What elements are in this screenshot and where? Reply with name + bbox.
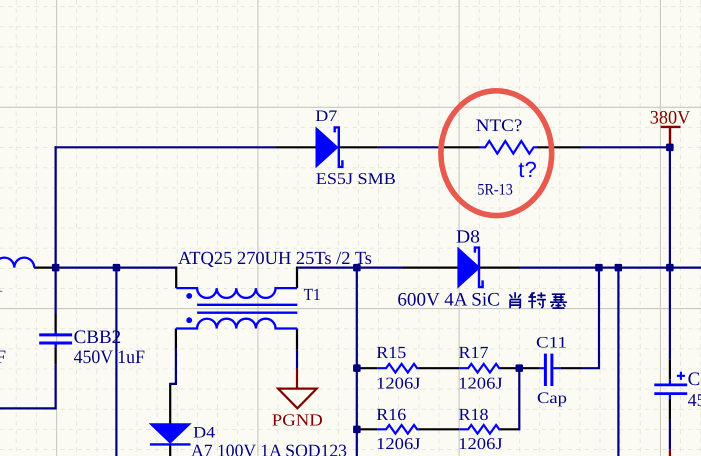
- wire vertical joining resistor rows: [518, 368, 520, 430]
- pin transformer secondary left (black): [175, 329, 177, 349]
- svg-text:1206J: 1206J: [458, 434, 503, 453]
- svg-text:ES5J SMB: ES5J SMB: [316, 169, 396, 188]
- svg-text:ATQ25 270UH 25Ts /2 Ts: ATQ25 270UH 25Ts /2 Ts: [178, 249, 372, 269]
- label CJK te: [528, 292, 546, 308]
- svg-text:A7 100V 1A SOD123: A7 100V 1A SOD123: [191, 440, 347, 456]
- svg-text:t?: t?: [518, 157, 537, 182]
- wire navy segment: [378, 146, 439, 148]
- node junction at 669.9,267.6: [666, 264, 674, 272]
- wire inductor pin black: [34, 267, 56, 269]
- wire black segment NTC to node: [537, 146, 581, 148]
- svg-text:F: F: [0, 347, 6, 368]
- electrolytic capacitor plus sign: [677, 372, 685, 380]
- wire top loop left vertical: [54, 146, 56, 267]
- pin electrolytic cap bottom (black): [669, 399, 671, 420]
- wire black segment from D7 cathode: [339, 146, 377, 148]
- svg-text:450V 1uF: 450V 1uF: [74, 347, 145, 368]
- wire vertical bus x=356: [356, 268, 358, 456]
- svg-text:1206J: 1206J: [376, 373, 421, 392]
- wire black segment to D8 anode: [403, 267, 458, 269]
- capacitor C11 plates: [545, 354, 552, 386]
- wire black below D4 to bottom edge: [169, 445, 171, 456]
- wire main rail down to electrolytic cap: [669, 268, 671, 360]
- wire transformer primary left pin corner: [175, 267, 177, 289]
- wire R15 row segments (black): [357, 367, 378, 369]
- svg-text:NTC?: NTC?: [476, 115, 523, 135]
- svg-text:380V: 380V: [650, 108, 691, 129]
- pin electrolytic cap top (black): [669, 360, 671, 380]
- svg-text:CBB2: CBB2: [74, 327, 122, 348]
- svg-text:Cap: Cap: [537, 390, 567, 407]
- transformer T1 secondary winding: [176, 319, 297, 329]
- wire secondary left down with jog: [169, 348, 177, 384]
- transformer T1 polarity dot secondary: [186, 317, 192, 323]
- svg-text:600V 4A SiC: 600V 4A SiC: [397, 290, 500, 311]
- wire R16 row segments (black): [357, 428, 378, 430]
- pin CBB2 top (black): [54, 314, 56, 334]
- diode D7 schottky cathode bar: [335, 127, 343, 166]
- wire black segment from D8 cathode: [480, 267, 520, 269]
- wire black segment to NTC: [438, 146, 479, 148]
- svg-text:1206J: 1206J: [458, 373, 503, 392]
- resistor R16: [377, 425, 418, 434]
- diode D4 cathode bar: [150, 443, 191, 445]
- svg-text:1: 1: [0, 276, 4, 297]
- power port 380V bar and stem: [661, 127, 681, 145]
- electrolytic capacitor plates: [654, 385, 687, 394]
- svg-text:D4: D4: [193, 424, 215, 441]
- diode D7 triangle: [316, 128, 338, 168]
- svg-text:C11: C11: [536, 334, 567, 351]
- wire main rail left segment: [56, 267, 177, 269]
- wire C11 right up to main rail: [582, 268, 600, 369]
- svg-text:5R-13: 5R-13: [477, 181, 512, 198]
- svg-text:D7: D7: [315, 108, 337, 125]
- wire top right navy segment to 380V node: [581, 146, 670, 148]
- svg-text:D8: D8: [456, 228, 480, 248]
- wire main rail middle navy segment: [297, 267, 403, 269]
- wire 380V node down to main rail: [669, 147, 671, 267]
- svg-text:R16: R16: [376, 405, 406, 424]
- resistor R17: [459, 364, 500, 373]
- wire vertical bus x=116: [115, 268, 117, 456]
- transformer T1 polarity dot primary: [186, 293, 192, 299]
- svg-text:C1: C1: [688, 369, 701, 390]
- transformer T1 core: [197, 305, 297, 313]
- thermistor NTC zigzag: [479, 141, 537, 154]
- node junction at 116.4,267.6: [113, 264, 121, 272]
- svg-text:PGND: PGND: [272, 411, 323, 430]
- svg-text:450: 450: [688, 390, 701, 410]
- node junction at 599.0,267.6: [595, 264, 603, 272]
- node junction at 55.6,267.6: [52, 264, 60, 272]
- wire black segment to D7 anode: [276, 146, 317, 148]
- ground symbol PGND triangle: [278, 389, 317, 409]
- node junction at 618.4,267.6: [615, 264, 623, 272]
- node junction at 356.8,267.6: [353, 264, 361, 272]
- wire C11 right black segment: [561, 367, 582, 369]
- pin CBB2 bottom (black): [54, 344, 56, 364]
- wire main rail right navy segment: [520, 267, 701, 269]
- annotation red ellipse: [441, 91, 552, 216]
- transformer T1 primary winding: [176, 288, 297, 298]
- svg-text:1206J: 1206J: [376, 434, 421, 453]
- resistor R15: [377, 364, 418, 373]
- node junction at 519.3,368.2: [516, 364, 524, 372]
- svg-text:T1: T1: [304, 285, 321, 304]
- wire secondary right to PGND: [296, 350, 298, 369]
- svg-text:R17: R17: [459, 343, 490, 362]
- svg-text:R18: R18: [459, 405, 489, 424]
- pin transformer secondary right (black): [296, 329, 298, 350]
- wire transformer primary right pin corner: [296, 267, 298, 289]
- diode D8 schottky cathode bar: [475, 248, 483, 288]
- power stem stub bottom right (dark red): [669, 449, 671, 456]
- inductor coil at left edge: [0, 258, 34, 268]
- label CJK xiao: [510, 292, 521, 308]
- wire top horizontal left segment: [55, 146, 277, 148]
- svg-text:R15: R15: [376, 343, 406, 362]
- ground symbol PGND stem: [296, 369, 298, 389]
- wire node to C11 left (black): [522, 367, 540, 369]
- wire black down to D4: [169, 385, 171, 424]
- label CJK ji: [550, 294, 567, 308]
- wire below electrolytic cap: [669, 420, 671, 450]
- wire CBB2 bottom to left edge: [0, 365, 56, 409]
- resistor R18: [459, 425, 500, 434]
- diode D8 triangle: [458, 248, 480, 288]
- node junction at 356.8,429.3: [353, 426, 361, 434]
- node junction at 669.9,147.3: [666, 144, 674, 152]
- capacitor CBB2 plates: [39, 335, 72, 343]
- diode D4 triangle: [150, 424, 191, 444]
- wire CBB2 top branch: [54, 268, 56, 314]
- node junction at 356.8,368.2: [353, 364, 361, 372]
- wire vertical bus x=618: [617, 268, 619, 456]
